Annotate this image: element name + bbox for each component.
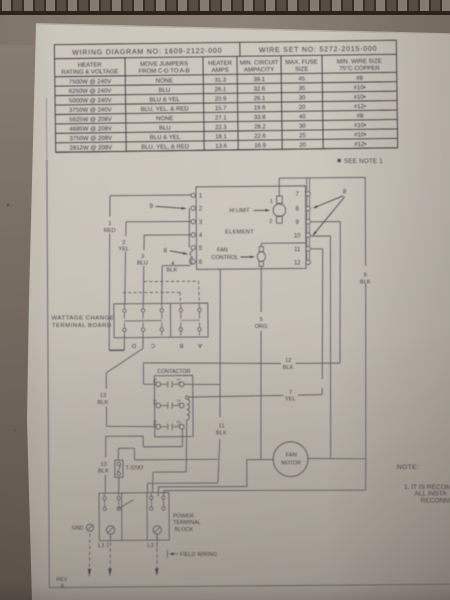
label 13 BLK xyxy=(98,393,109,406)
label 4 BLK xyxy=(167,261,178,273)
label POWER TERMINAL BLOCK xyxy=(173,513,201,533)
contactor coil xyxy=(186,396,190,437)
element terminal 3 (left) xyxy=(191,219,195,223)
label 10 BLK xyxy=(98,462,109,475)
connector strip links terminals 7-12 xyxy=(306,196,308,206)
label 2 YEL xyxy=(118,240,129,252)
dashed jumper BLU wire to board column A xyxy=(144,280,199,282)
label 12 BLK xyxy=(283,358,294,371)
board column letters D C B A (rotated) xyxy=(132,342,202,348)
wire 6 BLK bottom to power terminal block L2 xyxy=(365,459,367,490)
wire 6 BLK: hi-limit feed down right side xyxy=(364,177,366,266)
wire coil bottom to power terminal block xyxy=(185,437,187,472)
drawing border bottom edge xyxy=(49,584,450,587)
wire thermostat top stem xyxy=(117,448,119,460)
wire 2 YEL: element terminal 3 to terminal board xyxy=(126,221,191,223)
power terminal block box xyxy=(99,493,169,541)
contactor box xyxy=(154,375,193,437)
contactor pole 3: T3 and L3 terminals with contact xyxy=(152,420,184,430)
comb binding strip xyxy=(0,0,450,15)
note marker: SEE NOTE 1 xyxy=(338,158,384,165)
wire 13 BLK: board column C to contactor T3 xyxy=(142,335,144,348)
field wiring dashed leads L1 L2 GND xyxy=(88,534,159,578)
element terminal 4 (left) xyxy=(191,233,195,237)
wire fan motor left lead xyxy=(247,459,274,461)
terminal board post column 1 circles xyxy=(123,309,127,313)
label NOTE block xyxy=(397,464,450,505)
label 11 BLK xyxy=(216,424,227,437)
plug bumps at terminals 5-6 xyxy=(190,251,193,258)
terminal board jumper bars xyxy=(124,320,161,322)
label 6 BLK xyxy=(360,273,371,286)
element box (heater ELEMENT enclosure) xyxy=(196,186,306,270)
bright paper top edge xyxy=(36,23,450,36)
label 3 BLU xyxy=(137,254,148,266)
wire 5 ORG: fan-control bottom down to fan motor xyxy=(260,266,262,312)
contactor pole 1: T1 and L1 terminals with contact xyxy=(152,378,184,388)
wire fan-control top to terminal strip xyxy=(260,243,262,246)
dust speck xyxy=(7,204,9,206)
wire hi-limit pin1 up and right (node to 6 BLK) xyxy=(278,178,280,196)
wire fan motor right lead to 6 BLK xyxy=(307,458,366,460)
power block terminals right section xyxy=(150,496,166,510)
wire 10 BLK thermostat bottom to block xyxy=(118,477,120,493)
power block interior stems xyxy=(105,493,158,541)
contactor pole 2: T2 and L2 terminals with contact xyxy=(152,399,184,409)
thermostat T-STAT xyxy=(115,460,123,477)
label 1 RED xyxy=(104,221,116,234)
arrow label 8 to plug bump terminal 5 xyxy=(164,248,188,255)
label FAN CONTROL with arrow xyxy=(211,248,254,261)
hi-limit thermostat symbol xyxy=(273,196,286,223)
dashed jumper YEL wire to board column B xyxy=(123,291,180,293)
L2 screw terminal xyxy=(153,526,161,534)
spec table: wiring diagram / wire set numbers and heater rating rows xyxy=(54,40,397,152)
wire 4 BLK: element terminal 6 to terminal board xyxy=(162,265,190,267)
element terminal 2 (left) xyxy=(191,206,195,210)
label L2 xyxy=(147,542,157,550)
element terminal 1 (left) xyxy=(191,193,195,197)
label WATTAGE CHANGE TERMINAL BOARD xyxy=(52,316,115,330)
element terminal 5 (left) xyxy=(191,245,195,249)
wire: element terminal 10 to fan motor xyxy=(310,235,330,237)
wire: board column D stem to RED junction xyxy=(123,336,125,351)
label 5 ORG xyxy=(255,317,268,330)
wattage change terminal board box xyxy=(114,303,208,338)
label REV A xyxy=(56,577,67,589)
wire: contactor T3 feed to power terminal block L1 xyxy=(106,435,143,437)
connector stem above terminal 7 xyxy=(306,178,308,192)
fan-control switch symbol xyxy=(257,247,265,267)
terminal board post column 3 circles xyxy=(160,309,164,313)
label FIELD WIRING with arrow xyxy=(167,550,217,558)
label L1 xyxy=(98,542,108,550)
terminal board post column 4 circles xyxy=(179,308,183,312)
wire 12 BLK: element terminal 9 to contactor T1 xyxy=(310,221,340,223)
band between binding and paper xyxy=(0,15,450,45)
L1 screw terminal xyxy=(106,526,114,534)
dust speck xyxy=(14,429,16,431)
wire 11 BLK: contactor L1 to power terminal block xyxy=(184,383,220,385)
label HI LIMIT with arrow xyxy=(229,208,269,214)
wire 3 BLU: element terminal 4 to terminal board xyxy=(144,234,191,236)
drawing border left edge xyxy=(45,98,47,160)
terminal board post column 2 circles xyxy=(141,309,145,313)
wire 7 YEL: element terminal 11 to contactor coil xyxy=(310,248,322,250)
fan motor xyxy=(273,442,308,477)
power block terminals left section xyxy=(103,496,134,510)
arrows label 8 to terminals 8 and 10 xyxy=(313,188,347,235)
jumper wire bridging terminals 2-5 xyxy=(188,208,190,247)
terminal board post column 5 circles xyxy=(198,308,202,312)
wire 1 RED: element terminal 1 to terminal board D xyxy=(110,194,191,197)
wire: thermostat jog to 11 BLK xyxy=(118,447,134,449)
element terminal 6 (left) xyxy=(191,259,195,263)
arrow label 9 to terminal 2 xyxy=(150,203,186,210)
label 7 YEL xyxy=(285,390,296,403)
ground symbol GND xyxy=(72,524,94,531)
